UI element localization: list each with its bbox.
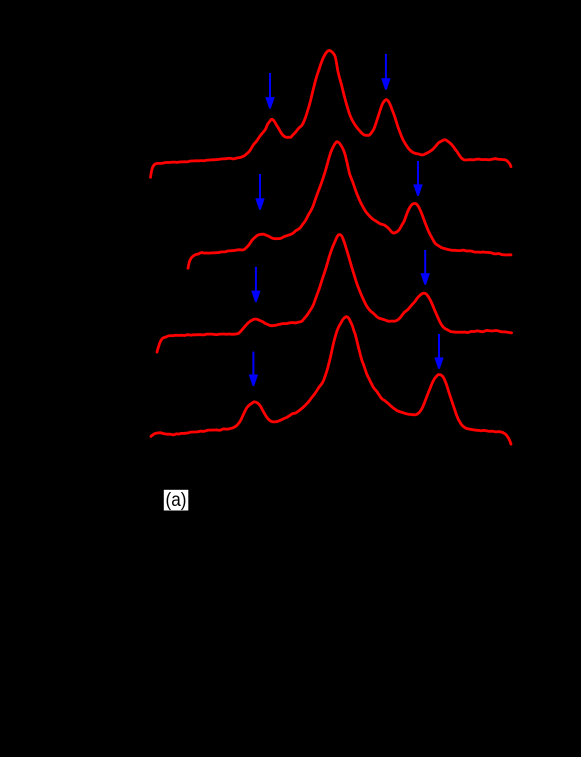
spectrum trace 3 [157,235,512,353]
arrow A3R [421,250,430,285]
label (a) box [164,490,189,511]
arrow A3L [251,267,260,302]
arrow A4L [249,352,258,386]
svg-text:(a): (a) [166,488,187,510]
arrow A2R [413,161,422,196]
spectrum trace 4 (bottom) [151,317,511,444]
arrow A2L [255,174,264,210]
arrow A1L [265,73,274,109]
spectrum trace 1 (top) [151,51,512,178]
spectrum trace 2 [188,142,511,269]
arrow A1R [381,54,390,90]
arrow A4R [434,334,443,369]
